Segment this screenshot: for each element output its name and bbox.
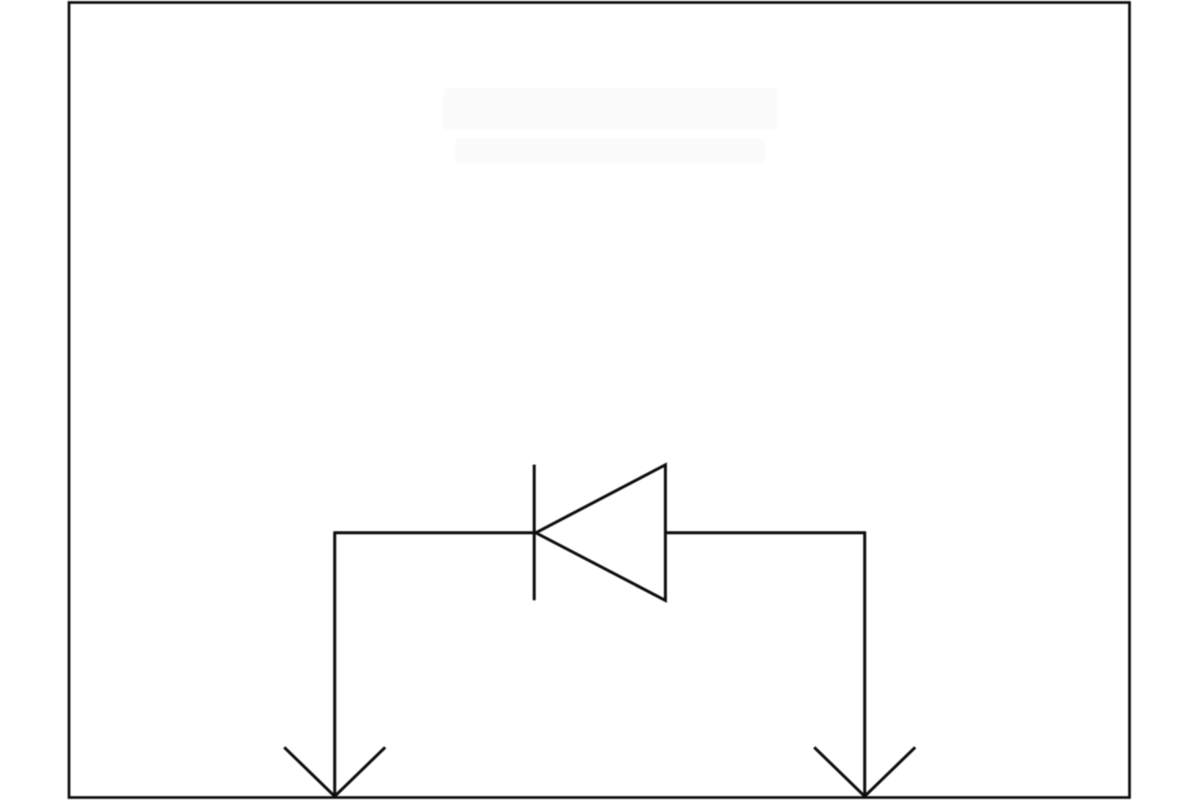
wire: right vertical drop	[863, 531, 866, 796]
diode D1 cathode bar	[533, 465, 536, 601]
wire: left horizontal from left bend to diode cathode	[335, 531, 536, 534]
faint watermark remnants	[443, 88, 778, 164]
wire: left vertical drop	[333, 531, 336, 796]
wire: right horizontal from diode anode to right bend	[665, 531, 864, 534]
diode D1 triangle (anode, pointing left)	[536, 465, 666, 601]
arrowhead right (current arrow down)	[814, 747, 915, 796]
arrowhead left (current arrow down)	[284, 747, 385, 796]
